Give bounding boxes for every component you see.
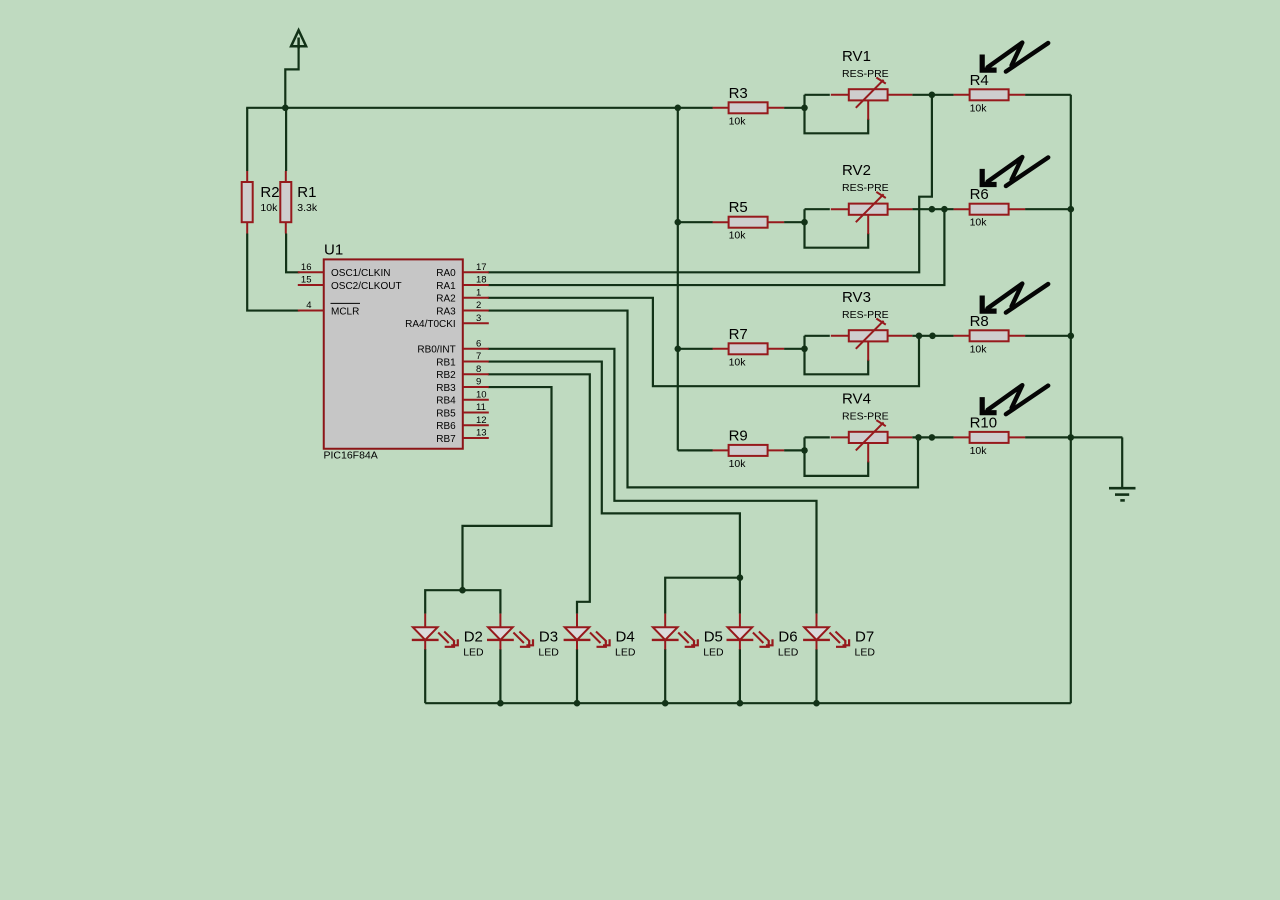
svg-text:10k: 10k	[970, 445, 988, 457]
LED D2	[412, 614, 458, 650]
svg-text:10k: 10k	[260, 202, 278, 214]
light arrows (LDR) row 3	[982, 284, 1048, 313]
svg-text:R9: R9	[729, 427, 748, 444]
svg-text:10k: 10k	[970, 217, 988, 229]
wire loop to RV4	[805, 436, 830, 438]
svg-text:R1: R1	[297, 184, 316, 201]
svg-text:RB5: RB5	[436, 408, 456, 419]
LED D7	[803, 614, 849, 650]
resistor R7	[713, 343, 785, 354]
junction node A	[929, 92, 936, 99]
pin 6 RB0/INT	[463, 348, 489, 350]
svg-text:12: 12	[476, 415, 487, 426]
wire RV3 to R8	[912, 335, 953, 337]
pin 12 RB6	[463, 424, 489, 426]
wire D7 cathode	[815, 649, 817, 703]
svg-text:RES-PRE: RES-PRE	[842, 410, 889, 422]
IC U1 PIC16F84A	[324, 259, 463, 448]
svg-text:LED: LED	[855, 647, 876, 659]
wire D2 cathode	[424, 649, 426, 703]
svg-text:PIC16F84A: PIC16F84A	[324, 449, 378, 461]
preset RV1	[831, 78, 913, 120]
light arrows (LDR) row 4	[982, 385, 1048, 414]
wire left bus	[677, 108, 679, 451]
junction rail	[813, 700, 820, 707]
junction node D	[915, 434, 922, 441]
junction loop RV2	[801, 219, 808, 226]
wire RB1 to D5 D6	[488, 362, 740, 578]
junction rail	[574, 700, 581, 707]
wire D5 cathode	[664, 649, 666, 703]
resistor R1	[280, 171, 291, 234]
wire VDD rail	[246, 107, 713, 109]
pin 10 RB4	[463, 399, 489, 401]
svg-text:18: 18	[476, 275, 487, 286]
svg-text:9: 9	[476, 377, 481, 388]
wire loop to RV2	[805, 208, 830, 210]
wire VDD drop	[285, 46, 298, 108]
LED D6	[727, 614, 773, 650]
wire R9 to loop	[784, 449, 804, 451]
svg-text:D3: D3	[539, 629, 558, 646]
svg-text:10k: 10k	[729, 115, 747, 127]
svg-text:R8: R8	[970, 313, 989, 330]
svg-text:RB7: RB7	[436, 434, 456, 445]
wire loop to RV1	[805, 94, 830, 96]
wire RV4 loop	[805, 437, 869, 476]
svg-text:RB6: RB6	[436, 421, 456, 432]
svg-text:RB2: RB2	[436, 370, 456, 381]
svg-text:RB4: RB4	[436, 396, 456, 407]
LED D4	[564, 614, 610, 650]
junction loop RV3	[801, 346, 808, 353]
pin 3 RA4/T0CKI	[463, 322, 489, 324]
svg-text:RES-PRE: RES-PRE	[842, 182, 889, 194]
svg-text:RB3: RB3	[436, 383, 456, 394]
wire R6 to bus	[1025, 208, 1071, 210]
junction bus R3	[675, 105, 682, 112]
svg-text:R3: R3	[729, 85, 748, 102]
svg-text:LED: LED	[615, 647, 636, 659]
svg-text:RES-PRE: RES-PRE	[842, 309, 889, 321]
junction bus row 3	[1068, 333, 1075, 340]
svg-text:RA3: RA3	[436, 306, 456, 317]
pin 11 RB5	[463, 412, 489, 414]
wire R2 top	[246, 108, 248, 171]
pin 8 RB2	[463, 373, 489, 375]
svg-text:15: 15	[301, 275, 312, 286]
junction VDD	[282, 105, 289, 112]
wire ground drop	[1121, 437, 1123, 487]
svg-text:RV3: RV3	[842, 289, 871, 306]
MCLR overbar	[331, 302, 361, 304]
svg-text:D2: D2	[464, 629, 483, 646]
pin 15 OSC2/CLKOUT	[298, 284, 324, 286]
pin 17 RA0	[463, 271, 489, 273]
pin 18 RA1	[463, 284, 489, 286]
svg-text:R10: R10	[970, 414, 998, 431]
svg-text:D4: D4	[616, 629, 635, 646]
wire RV3 loop	[805, 336, 869, 375]
svg-text:4: 4	[306, 300, 311, 311]
wire R5 to loop	[784, 221, 804, 223]
wire bus to R9	[678, 449, 713, 451]
junction loop RV1	[801, 105, 808, 112]
wire R1 to OSC1	[286, 234, 299, 273]
svg-text:LED: LED	[703, 647, 724, 659]
svg-text:RES-PRE: RES-PRE	[842, 68, 889, 80]
svg-text:11: 11	[476, 402, 486, 413]
svg-text:LED: LED	[778, 647, 799, 659]
wire R10 to ground branch	[1025, 436, 1122, 438]
pin 13 RB7	[463, 437, 489, 439]
svg-text:D5: D5	[704, 629, 723, 646]
wire R8 to bus	[1025, 335, 1071, 337]
wire R7 to loop	[784, 348, 804, 350]
wire D4 cathode	[576, 649, 578, 703]
wire D6 cathode	[739, 649, 741, 703]
wire RA1 net	[488, 209, 945, 285]
resistor R5	[713, 217, 785, 228]
junction node D2	[929, 434, 936, 441]
svg-text:R4: R4	[970, 72, 989, 89]
wire bus to R7	[678, 348, 713, 350]
junction rail	[662, 700, 669, 707]
pin 7 RB1	[463, 361, 489, 363]
preset RV4	[831, 420, 913, 462]
svg-text:10k: 10k	[970, 102, 988, 114]
svg-text:RB0/INT: RB0/INT	[417, 345, 455, 356]
junction node C2	[929, 333, 936, 340]
svg-text:RV1: RV1	[842, 48, 871, 65]
svg-text:D7: D7	[855, 629, 874, 646]
svg-text:LED: LED	[538, 647, 559, 659]
svg-text:10k: 10k	[729, 458, 747, 470]
svg-text:R7: R7	[729, 326, 748, 343]
wire RV4 to R10	[912, 436, 953, 438]
junction bus R5	[675, 219, 682, 226]
resistor R3	[713, 102, 785, 113]
preset RV2	[831, 192, 913, 234]
svg-text:8: 8	[476, 364, 481, 375]
wire bottom rail	[425, 702, 1071, 704]
pin 4 MCLR	[298, 310, 324, 312]
svg-text:1: 1	[476, 287, 481, 298]
svg-text:10k: 10k	[970, 343, 988, 355]
junction node B	[929, 206, 936, 213]
wire R2 to MCLR	[247, 234, 299, 311]
junction D5 D6 feed	[737, 574, 744, 581]
svg-text:3: 3	[476, 313, 481, 324]
svg-text:RV4: RV4	[842, 390, 871, 407]
wire RV2 to R6	[912, 208, 953, 210]
svg-text:16: 16	[301, 262, 312, 273]
resistor R8	[954, 330, 1026, 341]
wire R1 top	[285, 108, 287, 171]
LED D5	[652, 614, 698, 650]
svg-text:R6: R6	[970, 186, 989, 203]
svg-text:RB1: RB1	[436, 357, 456, 368]
wire bus to R5	[678, 221, 713, 223]
svg-text:D6: D6	[778, 629, 797, 646]
svg-text:MCLR: MCLR	[331, 306, 359, 317]
wire RV1 to R4	[912, 94, 953, 96]
svg-text:7: 7	[476, 351, 481, 362]
junction rail	[737, 700, 744, 707]
resistor R2	[242, 171, 253, 234]
power symbol VDD	[291, 30, 306, 48]
junction node C	[916, 333, 923, 340]
junction rail	[497, 700, 504, 707]
wire D3 cathode	[499, 649, 501, 703]
pin 1 RA2	[463, 297, 489, 299]
svg-text:10: 10	[476, 389, 487, 400]
svg-text:17: 17	[476, 262, 487, 273]
wire RA3 net	[488, 311, 918, 488]
pin 16 OSC1/CLKIN	[298, 271, 324, 273]
svg-text:3.3k: 3.3k	[297, 202, 318, 214]
wire RB3 to D2 D3	[463, 387, 552, 590]
wire bridge D5 D6	[665, 578, 740, 614]
light arrows (LDR) row 1	[982, 43, 1048, 72]
svg-text:RA0: RA0	[436, 268, 456, 279]
svg-text:RA4/T0CKI: RA4/T0CKI	[405, 319, 456, 330]
pin 9 RB3	[463, 386, 489, 388]
svg-text:13: 13	[476, 428, 487, 439]
svg-text:OSC2/CLKOUT: OSC2/CLKOUT	[331, 281, 402, 292]
wire bridge D2 D3	[425, 590, 500, 613]
wire R3 to loop	[784, 107, 804, 109]
svg-text:2: 2	[476, 300, 481, 311]
wire R4 to bus	[1025, 94, 1071, 96]
wire RV1 loop	[805, 95, 869, 134]
resistor R4	[954, 89, 1026, 100]
light arrows (LDR) row 2	[982, 157, 1048, 186]
svg-text:10k: 10k	[729, 230, 747, 242]
resistor R6	[954, 204, 1026, 215]
wire RA2 net	[488, 298, 919, 386]
wire right bus	[1070, 95, 1072, 703]
ground	[1109, 488, 1136, 500]
svg-text:R2: R2	[260, 184, 279, 201]
junction loop RV4	[801, 447, 808, 454]
resistor R10	[954, 432, 1026, 443]
pin 2 RA3	[463, 310, 489, 312]
svg-text:R5: R5	[729, 199, 748, 216]
junction bus R7	[675, 346, 682, 353]
wire RB2 to D4	[488, 374, 590, 613]
svg-text:RA1: RA1	[436, 281, 456, 292]
svg-text:LED: LED	[463, 647, 484, 659]
junction bus row 2	[1068, 206, 1075, 213]
junction node B2	[941, 206, 948, 213]
LED D3	[487, 614, 533, 650]
svg-text:10k: 10k	[729, 356, 747, 368]
wire RB0 to D7	[488, 349, 817, 614]
junction bus row 4	[1068, 434, 1075, 441]
svg-text:RV2: RV2	[842, 162, 871, 179]
wire RA0 net	[488, 95, 932, 272]
svg-text:OSC1/CLKIN: OSC1/CLKIN	[331, 268, 390, 279]
junction D2 D3 feed	[459, 587, 466, 594]
svg-text:U1: U1	[324, 242, 343, 259]
svg-text:6: 6	[476, 338, 481, 349]
wire loop to RV3	[805, 335, 830, 337]
svg-text:RA2: RA2	[436, 294, 456, 305]
wire RV2 loop	[805, 209, 869, 248]
resistor R9	[713, 445, 785, 456]
preset RV3	[831, 319, 913, 361]
